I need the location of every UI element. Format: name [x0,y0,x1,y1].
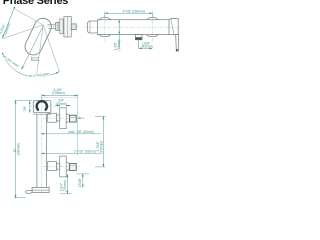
diagonal dimension line [3,10,14,38]
extension line shallow left [2,25,44,39]
hose outlet nut (dark) [136,37,142,39]
left cap [88,21,98,33]
cartridge nut [56,17,77,38]
handle base [169,18,178,34]
svg-text:5-7/8" (150mm): 5-7/8" (150mm) [123,9,145,13]
handset holder bracket [33,101,51,113]
flange width dimension 3/4 (20mm) [55,105,71,107]
holder centerline (dashed horizontal) [30,105,55,107]
escutcheon bump bottom-left [99,35,111,37]
lever dark tip [176,49,179,51]
body centerline (dashed) [85,26,182,28]
svg-text:(240mm): (240mm) [100,141,104,154]
rotation arc (hot to cold) [2,53,59,77]
lower valve connector [48,156,70,177]
diagonal dimension label 6-5/16 (160mm) [0,21,11,36]
hose outlet [135,35,142,40]
handle shaft [48,25,56,29]
holder C-clip (dark) [37,101,47,110]
fan line to cold arc end [43,25,59,71]
svg-text:(42mm): (42mm) [142,45,153,49]
upper valve flange [60,108,66,129]
upper valve neck [66,114,69,123]
svg-text:(20mm): (20mm) [56,102,67,106]
lower wall stub [70,164,77,171]
right union centerline (dashed vertical) [151,15,153,43]
svg-text:(70mm): (70mm) [63,180,67,191]
escutcheon bump top-right [146,18,158,20]
valve centerline (dashed) [47,26,79,28]
lower valve centerline (dashed) [43,165,80,167]
escutcheon bump bottom-right [146,35,158,37]
handle lever pill [22,15,54,57]
extension line up-left [15,9,44,25]
wall supply stub [71,24,76,30]
wall reference line [77,94,79,155]
holder-to-wall extension line [42,96,78,98]
lower valve flange [60,156,66,177]
drop dimension 13/16 rotated [82,174,84,188]
fan line to arc bottom [36,25,43,76]
svg-text:40° Hot water: 40° Hot water [2,54,21,69]
svg-text:13/16": 13/16" [78,178,82,187]
column centerline (dashed vertical) [41,97,43,196]
top dimension 4-1/8 (105mm) [42,94,78,100]
svg-text:2-7/16" (62mm): 2-7/16" (62mm) [74,150,96,154]
upper valve centerline (dashed) [43,117,80,119]
svg-text:max. 7/8" (22mm): max. 7/8" (22mm) [68,130,93,134]
holder height dimension (rotated) [29,101,31,113]
svg-text:7/8": 7/8" [23,106,27,112]
outlet centerline (dashed vertical) [138,33,140,49]
centres height dimension 9-7/16 (240mm) right [76,116,105,173]
upper wall stub [70,115,77,122]
svg-text:(105mm): (105mm) [52,91,65,95]
handle lever blade [176,35,179,51]
escutcheon bump top-left [99,18,111,20]
outlet offset dimension 1-5/8 (42mm) [139,40,153,49]
svg-text:Phase Series: Phase Series [3,0,69,7]
svg-text:22.5°: 22.5° [32,57,40,61]
overall height dimension 11in (280mm) left [14,101,32,198]
stub-to-wall arrow [78,117,85,119]
top width dimension 150mm [105,12,153,18]
mixer body [88,18,179,37]
svg-text:(280mm): (280mm) [17,143,21,156]
outlet spout lip [26,190,32,193]
cartridge ring [60,19,63,34]
left union centerline (dashed vertical) [104,15,106,43]
bottom collar [26,187,49,193]
svg-text:(35mm): (35mm) [117,40,121,51]
drop dimension 2-3/4 (70mm) rotated [66,174,68,193]
lower valve neck [66,162,69,171]
body depth dimension 1-3/8 (35mm) rotated [118,20,120,35]
svg-text:40° Cold water: 40° Cold water [28,72,50,79]
wall escutcheon (side) [64,17,71,38]
upper valve connector [48,108,70,129]
riser column [33,101,51,188]
lever axis line to neutral arc position [22,27,43,70]
label 22.5 deg [31,56,40,60]
